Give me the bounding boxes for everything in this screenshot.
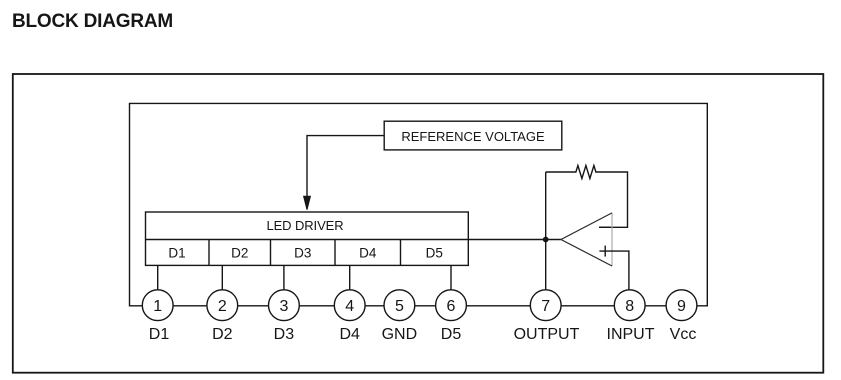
op-amp plus tick [604, 246, 606, 257]
svg-text:OUTPUT: OUTPUT [514, 326, 580, 343]
svg-text:GND: GND [382, 326, 418, 343]
svg-text:D4: D4 [359, 245, 377, 260]
op-amp U1 [611, 213, 613, 266]
pin 4 circle [334, 290, 365, 321]
svg-text:D3: D3 [294, 245, 311, 260]
wire: output line from LED driver to op-amp [468, 239, 561, 241]
svg-text:D3: D3 [274, 326, 295, 343]
cell divider 4 [400, 240, 402, 266]
pin 5 circle [384, 290, 415, 321]
cell divider 1 [208, 240, 210, 266]
svg-text:D5: D5 [426, 245, 443, 260]
svg-text:BLOCK DIAGRAM: BLOCK DIAGRAM [12, 11, 173, 32]
svg-text:D1: D1 [149, 326, 170, 343]
svg-text:3: 3 [279, 298, 288, 315]
pin 2 circle [207, 290, 238, 321]
svg-text:2: 2 [218, 298, 227, 315]
svg-text:D1: D1 [168, 245, 185, 260]
wire: cell D4 to pin 4 [349, 265, 351, 292]
wire: cell D1 to pin 1 [157, 265, 159, 292]
svg-text:REFERENCE VOLTAGE: REFERENCE VOLTAGE [401, 129, 545, 144]
LED driver box [146, 212, 469, 265]
op-amp plus input wire to pin 8 [599, 251, 629, 292]
wire: op-amp output vertical to pin 7 and feedback [545, 172, 547, 292]
feedback loop with resistor R [546, 166, 628, 228]
pin 8 circle [614, 290, 645, 321]
pin 3 circle [269, 290, 300, 321]
wire: cell D2 to pin 2 [221, 265, 223, 292]
cell divider 2 [270, 240, 272, 266]
op-amp minus input tick [599, 226, 611, 228]
wire: cell D5 to pin 6 [450, 265, 452, 292]
svg-text:6: 6 [447, 298, 456, 315]
svg-text:8: 8 [625, 298, 634, 315]
reference voltage box [384, 121, 562, 150]
IC outline (inner rectangle) [130, 103, 708, 305]
svg-text:1: 1 [153, 298, 162, 315]
svg-text:D4: D4 [339, 326, 360, 343]
LED driver row divider [146, 239, 469, 241]
wire: cell D3 to pin 3 [283, 265, 285, 292]
svg-text:LED DRIVER: LED DRIVER [266, 218, 343, 233]
svg-text:D5: D5 [441, 326, 462, 343]
svg-text:4: 4 [345, 298, 354, 315]
pin 6 circle [436, 290, 467, 321]
svg-text:INPUT: INPUT [607, 326, 655, 343]
pin 7 circle [530, 290, 561, 321]
svg-text:D2: D2 [231, 245, 248, 260]
arrowhead into LED driver [304, 196, 311, 210]
wire: reference voltage to LED driver [307, 136, 384, 198]
svg-text:D2: D2 [212, 326, 233, 343]
svg-text:7: 7 [541, 298, 550, 315]
svg-text:5: 5 [395, 298, 404, 315]
junction node dot [543, 237, 549, 243]
outer border frame [13, 74, 824, 373]
cell divider 3 [334, 240, 336, 266]
svg-text:9: 9 [677, 298, 686, 315]
pin 1 circle [142, 290, 173, 321]
svg-text:Vcc: Vcc [670, 326, 697, 343]
pin 9 circle [666, 290, 697, 321]
